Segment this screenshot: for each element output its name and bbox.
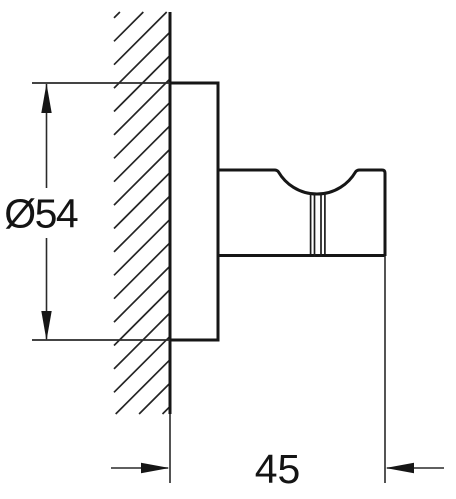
extension line top (Ø54): [32, 82, 170, 84]
hook body outline: [218, 170, 385, 256]
45 dimension line right segment: [387, 467, 444, 469]
svg-text:Ø54: Ø54: [4, 191, 78, 237]
Ø54 dimension line lower segment: [46, 238, 48, 339]
Ø54 dimension line upper segment: [46, 84, 48, 188]
extension line bottom (Ø54): [32, 339, 170, 341]
45 dimension line left segment: [111, 467, 168, 469]
mounting plate outline: [170, 83, 218, 340]
svg-text:45: 45: [255, 446, 301, 492]
wall hatching: [114, 12, 170, 414]
Ø54 arrow up: [41, 84, 51, 114]
wall extension line (to 45 dimension): [169, 414, 171, 483]
knob groove lines: [311, 193, 325, 257]
Ø54 arrow down: [41, 311, 51, 341]
45 arrow right: [141, 463, 170, 473]
wall face line: [169, 12, 172, 414]
45 arrow left: [386, 463, 415, 473]
knob right-face extension line (to 45 dimension): [384, 256, 386, 483]
